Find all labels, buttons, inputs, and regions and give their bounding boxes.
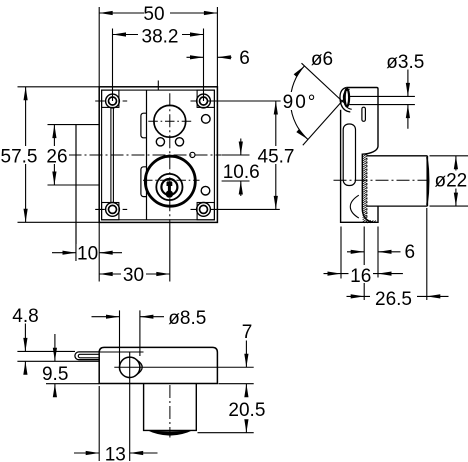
spring band hatch	[363, 154, 376, 223]
dim 10 label	[77, 244, 99, 265]
svg-text:26: 26	[46, 147, 67, 168]
left flange strip lines	[111, 107, 114, 202]
angle 90 leader leg lower	[303, 99, 344, 145]
svg-text:13: 13	[105, 444, 126, 462]
lance tab lower	[141, 167, 147, 197]
svg-text:ø22: ø22	[435, 170, 468, 191]
dim 10.6 line	[240, 139, 242, 197]
small hole right lower	[201, 186, 210, 195]
cylinder body bottom line	[367, 205, 428, 207]
side body right edge below cylinder	[372, 206, 378, 222]
dim o3.5 extension lines	[349, 96, 415, 104]
dim 57.5 label	[0, 146, 39, 168]
dim 9.5 line	[54, 334, 56, 397]
tiny pin hole on centerline	[190, 152, 195, 157]
keyway	[166, 181, 174, 197]
bottom body outline	[99, 347, 217, 383]
screw boss square bottom-right	[197, 203, 214, 220]
dim 13 extension line	[98, 386, 100, 461]
key hole horizontal centerline	[114, 366, 253, 368]
bottom body inner top line	[100, 351, 144, 353]
cylinder centerline	[334, 179, 429, 181]
dim 7 line	[245, 341, 247, 368]
tab inner fold line	[340, 88, 350, 113]
tab hole edge bold ellipse	[345, 89, 349, 107]
svg-text:10.6: 10.6	[223, 162, 260, 183]
cylinder ring circle	[156, 174, 182, 200]
lower bend wave line	[350, 195, 359, 218]
dim o8.5 line	[92, 316, 165, 318]
dim 20.5 line	[245, 384, 247, 433]
svg-text:ø6: ø6	[311, 49, 333, 70]
mounting hole top-right	[197, 94, 211, 108]
bent tab inner line	[78, 354, 99, 358]
dim 50 line	[99, 12, 217, 14]
dim o22 extension lines	[430, 156, 468, 206]
cylinder body top line	[367, 155, 428, 157]
dim o3.5 line	[407, 70, 409, 129]
screw boss square top-left	[102, 90, 119, 107]
plate inner offset outline	[102, 90, 215, 220]
svg-text:30: 30	[123, 265, 144, 286]
dim 13 line	[74, 452, 158, 454]
lance tab upper	[141, 113, 147, 138]
svg-text:38.2: 38.2	[142, 27, 179, 48]
dim 26.5 label	[370, 288, 417, 310]
side extension lines below	[341, 208, 427, 300]
screw boss square bottom-left	[102, 203, 119, 220]
cam protrusion edge line	[75, 125, 77, 261]
angle 90 arc	[290, 66, 307, 139]
svg-text:7: 7	[242, 322, 253, 343]
dim 26 label	[45, 146, 69, 168]
svg-text:57.5: 57.5	[1, 147, 38, 168]
cam hole horizontal centerline	[148, 120, 191, 122]
dim 30 line	[99, 273, 170, 275]
horizontal main centerline	[48, 154, 222, 156]
dim 38.2 label	[138, 26, 182, 48]
screw boss square top-right	[197, 90, 214, 107]
dim 10 line	[52, 252, 122, 254]
dim 50 extension lines	[99, 7, 217, 87]
cylinder block below	[144, 384, 197, 431]
cylinder flange bold circle	[145, 156, 195, 206]
hole centerline ticks	[95, 101, 196, 209]
svg-text:ø3.5: ø3.5	[386, 52, 424, 73]
dim 26 extension lines	[48, 125, 100, 185]
dim 10.6 label	[223, 162, 261, 183]
dim 57.5 extension lines	[18, 87, 100, 223]
dim 16 line	[324, 273, 403, 275]
dim 4.8 line	[24, 324, 26, 374]
mounting hole bottom-right	[197, 203, 211, 217]
tab inner fold line	[343, 89, 351, 109]
vertical main centerline	[169, 93, 171, 222]
small hole below cam right	[175, 138, 183, 146]
cylinder plug circle	[161, 179, 177, 195]
cylinder bottom cap	[146, 430, 193, 436]
key hole circle o8.5	[120, 357, 140, 377]
cylinder vertical centerline	[169, 385, 171, 438]
dim 45.7 label	[256, 146, 297, 168]
dim 9.5 extension line	[46, 383, 99, 385]
cam crescent	[136, 360, 142, 375]
dim 16 label	[349, 265, 374, 287]
dim 26.5 line	[347, 295, 449, 297]
vertical centerline extension below plate	[169, 222, 171, 281]
svg-text:6: 6	[239, 48, 250, 69]
label o6	[311, 49, 334, 70]
internal fold line	[146, 90, 148, 220]
dim o8.5 extension lines	[120, 310, 140, 370]
plate left edge extension below	[98, 222, 100, 281]
cylinder end cap	[427, 156, 429, 206]
dim 4.8 extension lines	[17, 351, 99, 361]
bent tab outer outline	[75, 352, 100, 360]
dim o22 line	[455, 156, 457, 206]
dim 6 top line	[187, 56, 232, 58]
mounting hole bottom-left	[106, 203, 120, 217]
svg-text:9.5: 9.5	[42, 364, 68, 385]
mounting hole top-left	[106, 94, 120, 108]
dim 30 label	[121, 265, 146, 286]
bottom hole centerline extension right	[211, 208, 280, 210]
svg-text:10: 10	[77, 244, 98, 265]
tall slot in side body	[343, 124, 355, 186]
svg-text:20.5: 20.5	[228, 400, 265, 421]
small hole below cam left	[156, 138, 164, 146]
dim 10.6 extension lines	[222, 155, 250, 181]
dim 50 label	[143, 4, 170, 25]
svg-text:ø8.5: ø8.5	[168, 308, 206, 329]
dim o22 label	[434, 170, 468, 191]
label 90 deg	[281, 92, 318, 113]
cam hole circle	[154, 105, 186, 137]
dim 57.5 line	[25, 87, 27, 223]
small slot in side body	[362, 107, 366, 121]
svg-text:50: 50	[143, 4, 164, 25]
svg-text:16: 16	[350, 266, 371, 287]
lock body plate outline	[99, 87, 217, 223]
dim 6 side line	[347, 251, 401, 253]
dim 13 label	[103, 444, 127, 462]
hole centerline to 90 deg note	[208, 100, 281, 102]
plate top midline tick	[157, 81, 159, 91]
angle 90 leader leg upper	[302, 63, 344, 102]
dim 38.2 line	[113, 34, 204, 36]
dim 9.5 label	[41, 364, 70, 385]
svg-text:6: 6	[405, 242, 416, 263]
spring band right edge	[366, 154, 368, 222]
svg-text:4.8: 4.8	[12, 306, 38, 327]
small hole right upper	[202, 115, 211, 124]
svg-text:26.5: 26.5	[375, 289, 412, 310]
svg-text:45.7: 45.7	[258, 147, 295, 168]
cylinder horizontal centerline	[143, 179, 200, 181]
dim 45.7 line	[275, 101, 277, 209]
key hole vertical centerline	[129, 352, 131, 461]
dim 38.2 extension lines	[113, 29, 204, 102]
dim 20.5 extension lines	[198, 384, 254, 433]
dim 26 line	[53, 125, 55, 185]
svg-text:90°: 90°	[283, 92, 318, 113]
side body outline with bent tab	[341, 88, 378, 223]
